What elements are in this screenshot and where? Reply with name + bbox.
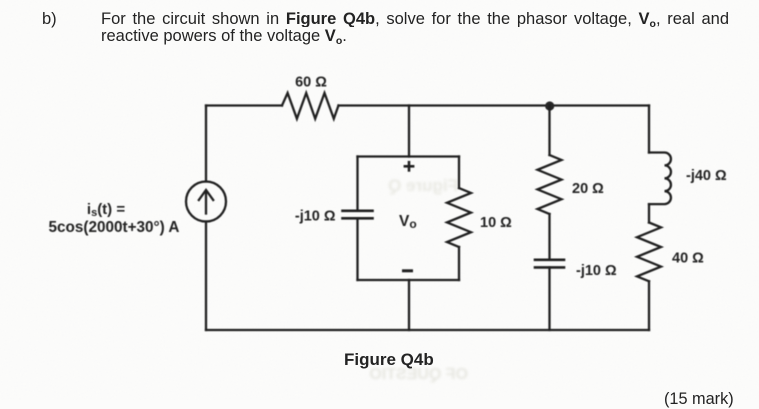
wire right branch upper (648, 106, 650, 153)
plus polarity mark (405, 162, 413, 170)
current source arrow (205, 192, 207, 214)
wire top rail right segment (339, 104, 650, 106)
resistor 60ohm (horizontal zigzag) (282, 93, 339, 119)
resistor 40ohm (vertical zigzag) (637, 223, 661, 282)
ghost bleed-through text (mirrored) (358, 176, 458, 196)
svg-text:-j10 Ω: -j10 Ω (295, 209, 336, 225)
svg-text:40 Ω: 40 Ω (672, 251, 704, 267)
current source IS circle (186, 182, 226, 222)
bottom rail wire (206, 329, 649, 331)
wire 20ohm branch upper (548, 106, 550, 156)
svg-text:5cos(2000t+30°) A: 5cos(2000t+30°) A (49, 219, 180, 236)
Vo box left edge lower wire (356, 218, 358, 280)
wire Vo branch upper (408, 106, 410, 157)
Vo box right edge upper wire (458, 157, 460, 189)
wire 20ohm branch middle (548, 214, 550, 260)
Vo box right edge lower wire (458, 247, 460, 280)
figure caption (344, 350, 434, 370)
wire right branch middle (648, 204, 650, 222)
wire right branch lower (648, 281, 650, 330)
problem text line 1 (101, 10, 729, 27)
minus polarity mark (404, 269, 412, 272)
wire Vo branch lower (408, 280, 410, 330)
Vo box top edge wire (358, 155, 460, 157)
svg-text:-j40 Ω: -j40 Ω (686, 168, 727, 184)
problem text: item label b) (42, 10, 57, 29)
svg-text:Vo: Vo (399, 213, 417, 231)
Vo box bottom edge wire (358, 279, 460, 281)
svg-text:10 Ω: 10 Ω (480, 215, 512, 231)
wire top rail left segment (206, 104, 282, 106)
wire 20ohm branch lower (548, 267, 550, 330)
svg-text:20 Ω: 20 Ω (572, 181, 604, 197)
svg-text:-j10 Ω: -j10 Ω (576, 263, 617, 279)
svg-text:60 Ω: 60 Ω (295, 75, 327, 91)
problem text line 2 (101, 27, 347, 46)
Vo box left edge upper wire (356, 157, 358, 211)
marks note (clipped at bottom) (664, 390, 734, 409)
wire left branch upper (205, 106, 207, 182)
inductor -j40 (coil) (649, 153, 671, 205)
junction node dot (545, 101, 554, 110)
capacitor -j10 (left) plates (343, 210, 373, 213)
resistor 20ohm (vertical zigzag) (538, 155, 562, 214)
svg-text:is(t) =: is(t) = (87, 201, 125, 219)
capacitor -j10 (right) plates (535, 258, 564, 261)
resistor 10ohm (vertical zigzag) (447, 188, 471, 247)
wire left branch lower (205, 222, 207, 331)
